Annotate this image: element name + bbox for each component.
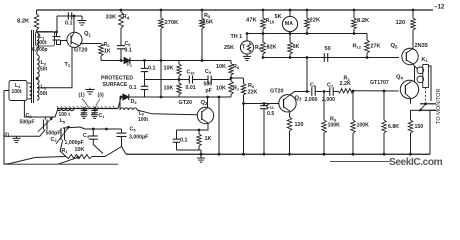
svg-text:1,000pF: 1,000pF (65, 140, 84, 146)
svg-text:8.2K: 8.2K (357, 18, 370, 24)
resistor 10K upper left (178, 61, 180, 65)
ground main below rail (200, 153, 203, 156)
svg-text:GT1707: GT1707 (370, 80, 389, 86)
resistor 6.8K (383, 91, 385, 120)
svg-text:50t: 50t (40, 66, 48, 72)
wire R1 left (4, 157, 66, 165)
resistor R3 1K (99, 44, 104, 57)
svg-text:22K: 22K (310, 18, 321, 24)
svg-text:10K: 10K (75, 147, 85, 153)
resistor 8.2K left (34, 14, 39, 30)
svg-text:(1): (1) (79, 92, 85, 98)
wire bottom rail (126, 153, 430, 155)
resistor R12 27K (365, 40, 370, 53)
relay K1 winding loops (417, 67, 424, 74)
svg-text:SeekIC.com: SeekIC.com (389, 157, 443, 168)
svg-text:C2: C2 (26, 113, 33, 119)
annotation curve 3 (95, 99, 100, 108)
ground mid-left (89, 88, 91, 90)
inductor L6 100t (119, 97, 121, 110)
svg-text:25K: 25K (224, 45, 234, 51)
wire 47K to 82K (262, 29, 264, 42)
svg-text:R3: R3 (104, 42, 111, 48)
wire R1 tap to border (77, 156, 80, 159)
svg-text:2N35: 2N35 (415, 43, 428, 49)
node R8-R7 tap (230, 77, 233, 80)
trimmer capacitor with ground b (93, 107, 96, 110)
svg-text:MA: MA (285, 21, 293, 27)
svg-text:0.5: 0.5 (267, 111, 274, 117)
svg-text:5K: 5K (275, 14, 282, 20)
inductor L4 100t box (9, 81, 27, 101)
resistor 120 below Q3 (287, 117, 292, 131)
capacitor C8 0.1 (120, 28, 122, 46)
svg-text:100t: 100t (138, 117, 148, 123)
svg-text:120: 120 (295, 122, 304, 128)
svg-text:2.2K: 2.2K (340, 81, 351, 87)
transistor Q1 GT20 (67, 32, 82, 47)
wire Q2 emitter (177, 123, 209, 130)
resistor 8.2K right (352, 18, 357, 29)
svg-text:L3: L3 (41, 85, 47, 91)
svg-text:0.1: 0.1 (129, 85, 137, 91)
svg-text:0.1: 0.1 (180, 138, 188, 144)
resistor R2 2.2K (338, 89, 355, 93)
wire rail right end to jack (429, 110, 431, 154)
capacitor 0.1 coupling a (144, 61, 146, 69)
wire top cap branch (56, 16, 58, 32)
inductor L2 50t winding (37, 55, 39, 78)
resistor R6 22K (231, 77, 244, 79)
diode D2 (123, 94, 129, 100)
svg-text:100K: 100K (357, 123, 370, 129)
resistor 22K (305, 18, 310, 29)
svg-text:1K: 1K (104, 49, 111, 55)
svg-text:(3): (3) (98, 92, 104, 98)
svg-text:50t: 50t (40, 91, 48, 97)
svg-text:L6: L6 (139, 111, 145, 117)
transistor Q4 GT1707 (400, 80, 418, 98)
svg-text:10K: 10K (164, 65, 174, 71)
annotation curve 1 (82, 99, 89, 108)
wire plate to D2 node (118, 97, 121, 109)
wire bias bus upper (101, 60, 231, 62)
svg-text:C11: C11 (266, 104, 275, 110)
svg-text:50: 50 (325, 46, 331, 52)
wire jack to emitter line (411, 109, 421, 111)
svg-text:Q3: Q3 (295, 95, 303, 101)
node C6-C7 junction (323, 90, 326, 93)
resistor 47K R10 (261, 18, 266, 29)
resistor 100K second (352, 91, 354, 120)
wire TH1 top (246, 34, 248, 42)
svg-text:C10: C10 (187, 69, 195, 75)
wire Q3 base (244, 103, 280, 105)
svg-text:0.1: 0.1 (125, 47, 132, 53)
wire 270K down (160, 29, 162, 98)
svg-text:Q1: Q1 (84, 31, 92, 37)
capacitor 50 in bus (323, 53, 325, 62)
wire L1 top node (37, 31, 57, 33)
ground top left (81, 16, 83, 21)
capacitor C10 0.01 in wire (188, 76, 190, 84)
svg-text:47K: 47K (246, 18, 257, 24)
wire R1 right slant to rail (92, 147, 122, 157)
svg-text:100t: 100t (12, 89, 22, 95)
inductor L3 50t winding (37, 80, 39, 101)
resistor 10K lower left (178, 80, 180, 84)
svg-text:2,000: 2,000 (305, 97, 318, 103)
svg-text:TO MONITOR: TO MONITOR (436, 88, 442, 124)
wire Q2 collector (207, 97, 209, 108)
capacitor C6 2000 (311, 87, 313, 96)
svg-text:R10: R10 (266, 18, 275, 24)
wire Q1 base (61, 40, 67, 42)
wire bias bus lower (145, 96, 232, 98)
svg-text:6.8K: 6.8K (388, 124, 399, 130)
wire tank bus to C5 (85, 128, 122, 130)
svg-text:C8: C8 (125, 41, 132, 47)
resistor 270K (159, 18, 164, 29)
dashed relay actuator (425, 88, 427, 102)
svg-text:R4: R4 (123, 14, 130, 20)
inductor L5 100t (58, 109, 75, 111)
svg-text:C5: C5 (130, 127, 137, 133)
svg-text:R1: R1 (62, 148, 69, 154)
inductor L4 winding (30, 83, 32, 99)
svg-text:33K: 33K (106, 15, 117, 21)
resistor R5 15K (200, 18, 205, 29)
svg-text:8.2K: 8.2K (17, 18, 30, 24)
wire bottom border (4, 163, 118, 165)
inductor L1 200t winding (37, 33, 39, 48)
svg-text:3,000pF: 3,000pF (129, 135, 148, 141)
svg-text:27K: 27K (371, 43, 381, 49)
svg-text:R12: R12 (353, 43, 362, 49)
resistor R1 10K (66, 154, 92, 158)
svg-text:C1: C1 (99, 113, 106, 119)
protected surface plate with hatching (57, 108, 118, 110)
svg-text:R6: R6 (248, 83, 255, 89)
resistor R8 10K (230, 61, 232, 64)
wire L4 to C2 top (24, 101, 58, 118)
capacitor C3 500pF variable (60, 128, 62, 140)
wire relay right (428, 66, 431, 101)
svg-text:Q4: Q4 (396, 74, 404, 80)
svg-text:GT20: GT20 (74, 48, 87, 54)
svg-text:100K: 100K (328, 123, 341, 129)
svg-text:5K: 5K (293, 44, 300, 50)
wire Q1 collector (73, 16, 75, 32)
svg-text:TH 1: TH 1 (231, 34, 243, 40)
wire R6 branch to rail (243, 95, 245, 154)
transformer T1 core (31, 30, 33, 103)
resistor R4 33K (119, 12, 124, 28)
svg-text:R8: R8 (233, 64, 240, 70)
svg-text:Q5: Q5 (391, 43, 399, 49)
resistor 150 (408, 120, 412, 133)
capacitor C7 2000 (329, 87, 331, 96)
jack contact lower (420, 109, 436, 111)
meter MA (282, 16, 297, 31)
resistor R9 82K (261, 42, 266, 54)
capacitor C5 3000pF (121, 129, 123, 133)
svg-text:15K: 15K (203, 19, 214, 25)
capacitor 0.1 coupling b (144, 80, 146, 87)
wire relay top (415, 66, 418, 69)
resistor R9 100K bottom (323, 92, 325, 121)
wire left border (4, 90, 9, 92)
jack contact upper (420, 103, 436, 105)
wire Q1 emitter to R3 (80, 43, 101, 45)
svg-text:L5: L5 (60, 118, 66, 124)
wire bottom right segment (330, 161, 390, 163)
wire ground-2 stub (4, 135, 40, 137)
wire mid distribution bus (247, 33, 367, 35)
svg-text:120: 120 (396, 20, 406, 26)
wire Q4 emitter (410, 98, 412, 104)
svg-text:500pF: 500pF (46, 130, 61, 136)
transistor Q5 2N35 (402, 48, 418, 64)
svg-text:(2): (2) (3, 133, 9, 139)
svg-text:GT20: GT20 (179, 100, 192, 106)
svg-text:PROTECTED: PROTECTED (101, 75, 133, 81)
wire D2 on lower bus (121, 96, 145, 98)
svg-text:C9: C9 (205, 69, 212, 75)
svg-text:10K: 10K (164, 86, 174, 92)
svg-text:pF: pF (206, 88, 212, 94)
wire C3 bottom to R1 (60, 140, 66, 157)
wire to Q4 base (354, 90, 399, 92)
resistor R7 10K (229, 81, 233, 95)
capacitor 6000p across L1 (56, 32, 58, 37)
wire Q3 collector riser (306, 58, 308, 92)
capacitor C4 1000pF (92, 129, 94, 136)
svg-text:10K: 10K (216, 86, 226, 92)
svg-text:200t: 200t (37, 40, 47, 46)
svg-text:150: 150 (415, 124, 424, 130)
svg-text:500: 500 (204, 82, 213, 88)
wire Q4 emitter to 150 (410, 110, 412, 120)
svg-text:0.01: 0.01 (186, 85, 196, 91)
transistor Q3 GT20 (279, 95, 296, 112)
svg-text:1K: 1K (205, 136, 212, 142)
diode D1 (124, 57, 130, 63)
wire Q1 emitter feedback to transformer (37, 47, 72, 87)
thermistor TH1 (240, 41, 253, 54)
svg-text:R7: R7 (233, 86, 240, 92)
svg-text:T1: T1 (65, 62, 71, 68)
svg-text:82K: 82K (267, 45, 277, 51)
wire Q5 collector (412, 30, 414, 50)
trimmer capacitor with ground a (83, 107, 86, 110)
wire C2 bottom to ground node (40, 130, 45, 137)
wire Q5 emitter to Q4 collector (413, 64, 415, 83)
svg-text:C3: C3 (51, 137, 58, 143)
wire Q3 emitter (289, 111, 292, 117)
svg-text:L2: L2 (41, 60, 47, 66)
svg-text:K1: K1 (422, 57, 429, 63)
svg-text:C6: C6 (310, 82, 317, 88)
capacitor C11 0.5 (263, 102, 266, 105)
ground TH1 (246, 54, 248, 56)
box around L1 label (36, 32, 55, 47)
svg-text:C4: C4 (83, 133, 90, 139)
svg-text:C7: C7 (327, 82, 334, 88)
svg-text:R9: R9 (255, 45, 262, 51)
svg-text:10K: 10K (216, 64, 226, 70)
svg-text:100 t: 100 t (59, 112, 71, 118)
wire second bus to Q5 base (263, 57, 399, 59)
svg-text:22K: 22K (248, 89, 258, 95)
wire top -12V supply rail (37, 9, 434, 11)
resistor 1K emitter (198, 130, 200, 134)
svg-text:GT20: GT20 (270, 88, 283, 94)
svg-text:270K: 270K (165, 20, 180, 26)
svg-text:–12: –12 (434, 3, 445, 10)
transistor Q2 GT20 (197, 107, 213, 123)
svg-text:0.1: 0.1 (65, 20, 73, 26)
svg-text:Q2: Q2 (201, 100, 209, 106)
svg-text:500pF: 500pF (20, 119, 35, 125)
svg-text:D2: D2 (131, 99, 138, 105)
capacitor 0.1 top left (67, 12, 69, 20)
wire emitter cluster to rail (177, 149, 202, 151)
relay K1 core (423, 65, 429, 88)
wire Q3 collector bend (290, 92, 310, 96)
capacitor C2 500pF variable (44, 117, 46, 120)
wire R5 down (201, 29, 203, 61)
wire bus2 to bottom rail (218, 97, 220, 154)
wire mid coupling (145, 79, 189, 81)
svg-text:R5: R5 (204, 13, 211, 19)
svg-text:6,000p: 6,000p (32, 47, 48, 53)
capacitor C9 500pF in wire (207, 76, 209, 84)
resistor 120 top right (411, 18, 416, 30)
svg-text:0.1: 0.1 (148, 66, 156, 72)
wire C3 top to tank bus (63, 127, 85, 129)
node L2-L3 junction (36, 77, 39, 80)
jack arrow (420, 105, 426, 112)
ground (2) (16, 136, 18, 138)
resistor 5K (288, 42, 293, 54)
svg-text:SURFACE: SURFACE (103, 82, 128, 88)
capacitor 0.1 emitter bypass (176, 130, 178, 139)
